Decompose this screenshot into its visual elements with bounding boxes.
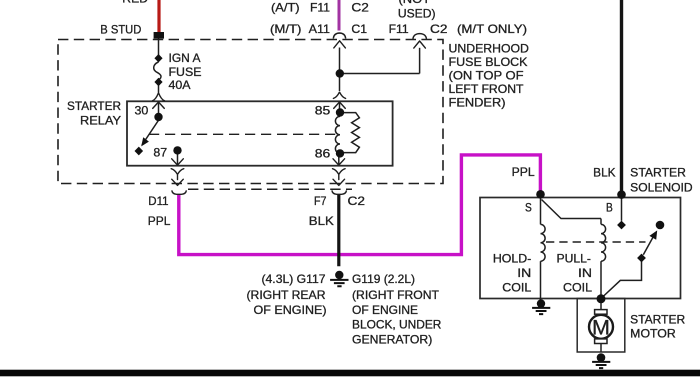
svg-text:HOLD-: HOLD-	[493, 252, 532, 265]
svg-text:MOTOR: MOTOR	[630, 327, 676, 340]
svg-text:FUSE BLOCK: FUSE BLOCK	[449, 56, 528, 69]
svg-text:UNDERHOOD: UNDERHOOD	[449, 43, 529, 56]
svg-text:BLK: BLK	[309, 215, 334, 228]
svg-text:FENDER): FENDER)	[449, 96, 506, 109]
svg-text:B STUD: B STUD	[100, 23, 141, 36]
svg-text:FUSE: FUSE	[169, 66, 202, 79]
svg-text:OF ENGINE: OF ENGINE	[352, 304, 418, 317]
svg-text:F11: F11	[389, 23, 409, 36]
svg-text:IN: IN	[578, 267, 592, 280]
svg-text:IN: IN	[517, 267, 531, 280]
svg-text:S: S	[525, 202, 532, 215]
svg-text:STARTER: STARTER	[630, 166, 686, 179]
svg-text:D11: D11	[148, 195, 168, 208]
svg-text:40A: 40A	[169, 79, 191, 92]
svg-text:LEFT FRONT: LEFT FRONT	[449, 83, 524, 96]
svg-text:STARTER: STARTER	[67, 100, 121, 113]
svg-text:C2: C2	[351, 2, 369, 15]
svg-text:PPL: PPL	[148, 215, 171, 228]
svg-text:RELAY: RELAY	[80, 114, 121, 127]
svg-text:A11: A11	[309, 23, 330, 36]
svg-text:GENERATOR): GENERATOR)	[352, 334, 432, 347]
svg-text:USED): USED)	[398, 8, 436, 21]
svg-text:OF ENGINE): OF ENGINE)	[254, 304, 327, 317]
svg-text:87: 87	[153, 147, 167, 160]
svg-text:(NOT: (NOT	[399, 0, 431, 6]
svg-text:C2: C2	[348, 195, 366, 208]
svg-text:STARTER: STARTER	[630, 313, 685, 326]
svg-text:COIL: COIL	[563, 281, 593, 294]
svg-text:F11: F11	[310, 2, 330, 15]
svg-text:(A/T): (A/T)	[271, 2, 300, 15]
svg-text:BLK: BLK	[593, 166, 616, 179]
svg-text:G119 (2.2L): G119 (2.2L)	[352, 273, 415, 286]
svg-text:(RIGHT FRONT: (RIGHT FRONT	[352, 289, 439, 302]
svg-text:COIL: COIL	[502, 281, 532, 294]
svg-text:SOLENOID: SOLENOID	[630, 182, 692, 195]
svg-text:(RIGHT REAR: (RIGHT REAR	[247, 289, 326, 302]
svg-text:C1: C1	[351, 23, 367, 36]
svg-text:RED: RED	[122, 0, 148, 6]
svg-text:(ON TOP OF: (ON TOP OF	[449, 69, 524, 82]
svg-text:(M/T): (M/T)	[270, 23, 302, 36]
svg-text:85: 85	[315, 104, 331, 117]
svg-text:IGN A: IGN A	[169, 52, 201, 65]
svg-text:86: 86	[315, 147, 331, 160]
svg-text:M: M	[592, 316, 610, 340]
svg-text:PULL-: PULL-	[557, 252, 592, 265]
svg-text:(M/T ONLY): (M/T ONLY)	[457, 23, 527, 36]
svg-text:B: B	[606, 202, 613, 215]
svg-text:F7: F7	[314, 195, 327, 208]
svg-text:BLOCK, UNDER: BLOCK, UNDER	[352, 319, 441, 332]
svg-text:(4.3L) G117: (4.3L) G117	[262, 273, 326, 286]
svg-text:C2: C2	[430, 23, 448, 36]
svg-text:30: 30	[135, 104, 149, 117]
svg-text:PPL: PPL	[512, 166, 536, 179]
